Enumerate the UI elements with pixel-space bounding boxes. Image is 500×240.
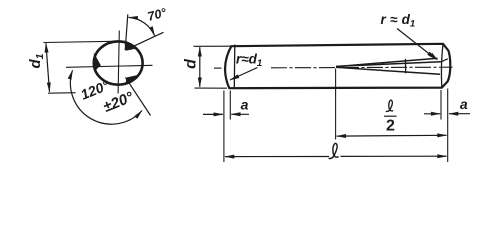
svg-text:d: d bbox=[182, 58, 199, 69]
svg-text:d1: d1 bbox=[27, 53, 46, 68]
svg-text:r≈d1: r≈d1 bbox=[236, 52, 262, 70]
svg-text:2: 2 bbox=[386, 117, 395, 134]
svg-text:a: a bbox=[460, 96, 468, 112]
svg-text:r≈d1: r≈d1 bbox=[381, 12, 416, 30]
svg-text:a: a bbox=[241, 96, 249, 112]
svg-text:70°: 70° bbox=[146, 5, 169, 24]
